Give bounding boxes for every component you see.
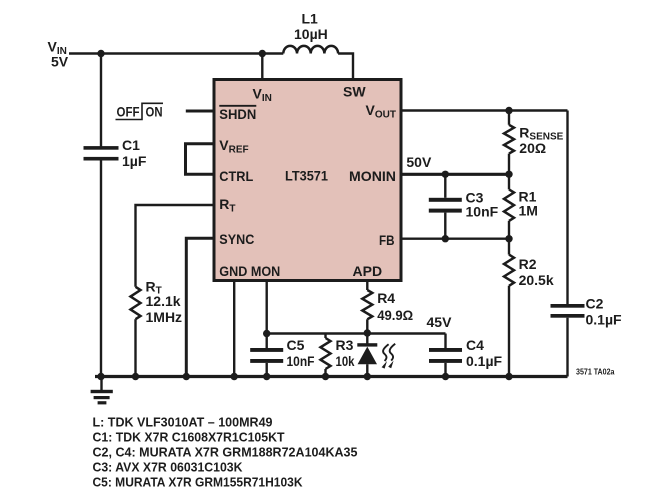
wire SW: L1 right to SW pin (338, 54, 353, 80)
node junction VIN rail / VIN pin (259, 50, 266, 57)
resistor RSENSE labels (519, 124, 563, 155)
svg-text:0.1µF: 0.1µF (466, 353, 503, 369)
svg-text:50V: 50V (406, 154, 432, 170)
diode D1 APD photodiode (357, 333, 377, 377)
node junction rail/GND (231, 373, 238, 380)
svg-text:49.9Ω: 49.9Ω (377, 307, 413, 323)
svg-text:OFF: OFF (117, 103, 140, 119)
node VIN input label (48, 39, 69, 70)
wire MON node to C4 (horizontal) (267, 332, 446, 334)
node junction rail/C5 (263, 373, 270, 380)
wire C1 branch: VIN junction down to C1 (100, 54, 102, 147)
photodiode light arrows (382, 344, 396, 369)
node junction rail/diode (364, 373, 371, 380)
resistor R4 labels (377, 290, 413, 323)
svg-text:20.5k: 20.5k (519, 272, 554, 288)
svg-text:1M: 1M (519, 203, 538, 219)
svg-text:APD: APD (353, 263, 383, 279)
node junction rail/C4 (442, 373, 449, 380)
svg-text:C4: C4 (466, 337, 484, 353)
svg-text:ON: ON (146, 103, 163, 119)
node junction R4 / diode / C4 wire (364, 329, 371, 336)
node junction rail/R3 (322, 373, 329, 380)
inductor L1 (283, 46, 338, 54)
wire MON pin down to C5 node (266, 281, 268, 334)
wire R4 bottom to APD diode node (366, 319, 368, 333)
ground symbol (91, 377, 113, 405)
svg-text:L: TDK VLF3010AT – 100MR49: L: TDK VLF3010AT – 100MR49 (93, 414, 273, 429)
capacitor C1 (84, 146, 119, 160)
resistor R3 labels (336, 337, 355, 369)
node junction VOUT / RSENSE (505, 107, 512, 114)
svg-text:20Ω: 20Ω (519, 140, 546, 156)
svg-text:LT3571: LT3571 (285, 168, 328, 184)
svg-text:10µH: 10µH (294, 26, 328, 42)
node junction MONIN / RSENSE / R1 (505, 171, 512, 178)
svg-text:GND MON: GND MON (219, 263, 280, 279)
wire VREF-CTRL loop (186, 144, 215, 175)
svg-text:R3: R3 (336, 337, 354, 353)
wire ground rail (95, 375, 568, 378)
switch annotation OFF/ON step symbol (116, 103, 164, 119)
capacitor C3 labels (466, 190, 499, 220)
svg-text:SW: SW (343, 84, 366, 100)
svg-text:C2: C2 (586, 296, 604, 312)
resistor R1 1M (504, 174, 514, 238)
resistor R3 10k (321, 334, 331, 377)
svg-text:10nF: 10nF (466, 204, 499, 220)
svg-text:C2, C4: MURATA X7R GRM188R72A1: C2, C4: MURATA X7R GRM188R72A104KA35 (93, 445, 358, 460)
capacitor C4 (429, 334, 462, 377)
svg-text:R2: R2 (519, 256, 537, 272)
node junction rail/SYNC (183, 373, 190, 380)
node junction FB / C3 (442, 235, 449, 242)
resistor R2 20.5k (504, 239, 514, 377)
resistor RSENSE 20 ohm (504, 111, 514, 175)
node junction rail/RT (132, 373, 139, 380)
node junction FB / R1 / R2 (505, 235, 512, 242)
node junction MON / C5 / R3 wire (263, 330, 270, 337)
svg-text:10k: 10k (336, 353, 355, 369)
svg-text:1MHz: 1MHz (146, 309, 183, 325)
svg-text:C5: MURATA X7R GRM155R71H103K: C5: MURATA X7R GRM155R71H103K (93, 475, 304, 490)
node junction rail/R2 (505, 373, 512, 380)
svg-text:FB: FB (379, 232, 395, 248)
svg-text:1µF: 1µF (122, 153, 147, 169)
svg-text:SHDN: SHDN (219, 106, 256, 122)
svg-text:SYNC: SYNC (219, 231, 254, 247)
svg-text:MONIN: MONIN (349, 168, 396, 184)
resistor RT labels 12.1k 1MHz (146, 278, 183, 324)
wire SHDN pin stub (186, 110, 214, 113)
wire RT resistor bottom to ground rail (134, 319, 136, 376)
wire FB pin to R1/R2 junction (401, 237, 509, 239)
inductor L1 value labels (294, 11, 328, 43)
IC U1 LT3571 body (214, 80, 401, 281)
svg-text:C5: C5 (287, 337, 305, 353)
svg-text:45V: 45V (427, 314, 453, 330)
capacitor C4 labels (466, 337, 503, 369)
IC U1 pin label SHDN with overline (219, 106, 256, 122)
capacitor C3 (429, 174, 462, 238)
capacitor C2 labels (586, 296, 623, 328)
capacitor C5 labels (287, 337, 315, 369)
svg-text:C3: AVX X7R 06031C103K: C3: AVX X7R 06031C103K (93, 460, 244, 475)
svg-text:5V: 5V (51, 54, 69, 70)
wire RT pin to resistor RT (136, 205, 215, 287)
svg-text:CTRL: CTRL (219, 168, 253, 184)
resistor R1 labels (519, 189, 538, 219)
svg-text:R4: R4 (377, 290, 395, 306)
node junction MONIN / C3 (442, 171, 449, 178)
component list text (93, 414, 358, 489)
wire SYNC pin to ground rail (186, 238, 214, 376)
wire VOUT to C2 corner (401, 109, 568, 111)
svg-text:3571 TA02a: 3571 TA02a (576, 368, 615, 377)
svg-text:0.1µF: 0.1µF (586, 312, 623, 328)
svg-text:C1: TDK X7R C1608X7R1C105KT: C1: TDK X7R C1608X7R1C105KT (93, 429, 285, 444)
wire MONIN pin to RSENSE bottom (401, 173, 509, 176)
node junction VIN rail / C1 branch (97, 50, 104, 57)
svg-text:10nF: 10nF (287, 353, 315, 369)
capacitor C5 (250, 334, 283, 377)
capacitor C1 value labels (122, 137, 147, 169)
svg-text:C1: C1 (122, 137, 140, 153)
wire VIN rail from input to L1 (69, 52, 283, 54)
wire C1 bottom to ground rail (100, 160, 102, 376)
svg-text:L1: L1 (302, 11, 319, 27)
resistor RT 12.1k (131, 287, 141, 319)
capacitor C2 (551, 304, 585, 377)
resistor R2 labels (519, 256, 554, 288)
wire C2 branch vertical from VOUT corner (566, 111, 568, 305)
wire APD pin down to R4 (366, 281, 368, 291)
resistor R4 49.9 ohm (362, 290, 372, 319)
node junction rail/C1 (97, 373, 104, 380)
wire VIN pin stub (junction down to IC pin VIN) (261, 54, 263, 80)
svg-text:12.1k: 12.1k (146, 293, 181, 309)
wire GND pin to ground rail (233, 281, 235, 377)
